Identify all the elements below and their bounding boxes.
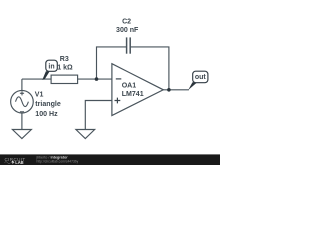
- svg-text:in: in: [48, 63, 54, 70]
- wire: non-inverting input to ground: [85, 101, 112, 130]
- svg-text:V1: V1: [35, 92, 44, 99]
- svg-text:triangle: triangle: [35, 101, 61, 108]
- voltage source V1 circle: [11, 90, 34, 113]
- V1 minus polarity marker: [20, 111, 24, 113]
- op-amp OA1 triangle: [112, 64, 163, 116]
- wire: main input line V1 to R3: [22, 78, 51, 80]
- wire: C2 to feedback right vertical down to output: [130, 47, 169, 90]
- wire: R3 to op-amp inverting input: [78, 78, 112, 80]
- wire: V1 top riser: [21, 79, 23, 90]
- watermark logo bolt: [11, 161, 14, 165]
- svg-text:300 nF: 300 nF: [116, 27, 139, 34]
- wire: V1 bottom to ground: [21, 113, 23, 130]
- node out flag tail: [188, 82, 197, 90]
- node junction at output/feedback: [167, 88, 171, 92]
- svg-text:out: out: [195, 74, 207, 81]
- wire: feedback left vertical + top to C2: [97, 47, 127, 79]
- node in flag box: [46, 60, 58, 71]
- ground for op-amp non-inverting input: [76, 130, 95, 139]
- svg-text:LM741: LM741: [122, 91, 144, 98]
- svg-text:1 kΩ: 1 kΩ: [57, 65, 73, 72]
- op-amp inverting input minus marker: [116, 78, 122, 80]
- node in flag tail: [42, 71, 49, 80]
- capacitor C2 plates: [127, 37, 131, 53]
- resistor R3 body: [51, 75, 78, 83]
- watermark logo squiggle: [5, 162, 11, 164]
- node out flag box: [193, 71, 208, 83]
- svg-text:C2: C2: [122, 18, 131, 25]
- svg-text:OA1: OA1: [122, 83, 137, 90]
- node junction at R3/feedback: [95, 77, 99, 81]
- watermark bar: [0, 154, 220, 165]
- op-amp non-inverting input plus marker: [115, 98, 121, 104]
- V1 plus polarity marker: [20, 91, 24, 95]
- ground for V1: [12, 130, 31, 139]
- wire: op-amp output to out flag: [163, 89, 189, 91]
- svg-text:100 Hz: 100 Hz: [35, 111, 58, 118]
- svg-text:http://circuitlab.com/c4473by: http://circuitlab.com/c4473by: [37, 160, 79, 164]
- svg-text:R3: R3: [60, 56, 69, 63]
- V1 sine wave symbol: [16, 97, 29, 107]
- svg-text:LAB: LAB: [15, 160, 23, 165]
